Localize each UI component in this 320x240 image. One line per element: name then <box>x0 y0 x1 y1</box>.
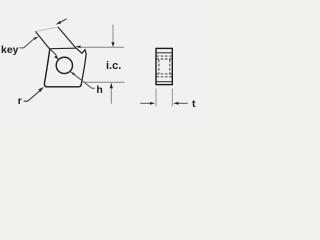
svg-text:key: key <box>1 44 19 56</box>
svg-text:i.c.: i.c. <box>106 60 121 72</box>
svg-text:h: h <box>96 84 102 96</box>
svg-text:t: t <box>192 98 196 110</box>
svg-text:r: r <box>18 95 22 107</box>
